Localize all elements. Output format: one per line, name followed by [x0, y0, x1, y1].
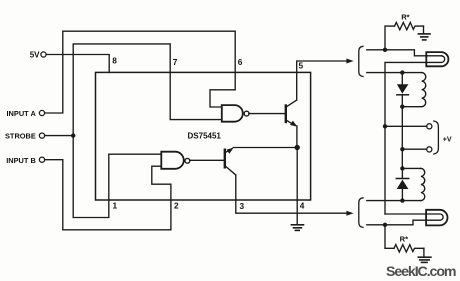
- terminal +V lower: [427, 147, 432, 152]
- resistor R2: [394, 245, 424, 252]
- wire pin 1 to gate U1a upper input: [109, 154, 162, 200]
- wire strobe to pin 1: [73, 136, 109, 218]
- wire INPUT A to pin 6: [45, 31, 236, 113]
- wire R2 down: [385, 225, 394, 249]
- junction R2: [383, 223, 387, 227]
- connector brace top: [359, 46, 363, 76]
- junction coil rail top 2: [400, 166, 404, 170]
- wire U1a output to Q1 base: [190, 159, 224, 161]
- wire pin 4 to ground: [296, 148, 298, 224]
- ground pin 4: [291, 225, 303, 231]
- transistor Q1: [225, 148, 236, 175]
- terminal INPUT B: [39, 157, 44, 162]
- wire R2 to ground: [423, 248, 425, 256]
- junction D2 bottom: [400, 198, 404, 202]
- NAND gate U1b: [222, 105, 243, 122]
- connector brace bottom: [359, 198, 363, 228]
- junction R1: [383, 48, 387, 52]
- wire Q1 collector pin 3 to arrow: [236, 175, 347, 213]
- svg-text:DS75451: DS75451: [188, 131, 222, 140]
- ground R2: [418, 257, 431, 262]
- junction +V lower: [400, 147, 404, 151]
- junction D1 bottom: [400, 105, 404, 109]
- wire +V lower: [402, 148, 426, 150]
- terminal STROBE: [39, 133, 44, 138]
- svg-text:4: 4: [300, 200, 305, 210]
- junction diode D1 top: [400, 70, 404, 74]
- wire R1 to ground: [423, 26, 425, 33]
- wire INPUT B to pin 2: [45, 160, 171, 230]
- wire bus D1 to +V lower: [401, 107, 403, 169]
- wire STROBE to junction: [45, 135, 73, 137]
- wire lamp 1 feed: [367, 50, 442, 56]
- svg-text:3: 3: [240, 201, 245, 211]
- bubble U1a: [185, 158, 190, 163]
- wire 5V to pin 8: [46, 55, 109, 73]
- svg-text:INPUT B: INPUT B: [6, 156, 36, 165]
- wire pin 6 hook to gate U1b upper input: [210, 72, 235, 107]
- svg-text:2: 2: [174, 200, 179, 210]
- wire emitter rail: [233, 147, 297, 149]
- wire coil rail bottom 1: [402, 106, 421, 108]
- junction +V upper: [383, 124, 387, 128]
- wire lamp 2 feed: [367, 214, 443, 225]
- lamp LP1 filament: [385, 56, 445, 127]
- wire U1b output to Q2 base: [249, 113, 285, 115]
- diode D1: [397, 73, 409, 107]
- NAND gate U1a: [161, 152, 183, 169]
- lamp LP1: [426, 52, 448, 66]
- resistor R1: [395, 22, 424, 29]
- wire +V upper: [385, 125, 427, 127]
- relay coil K2: [421, 168, 425, 200]
- wire coil rail top 1: [367, 72, 422, 74]
- svg-text:6: 6: [238, 57, 243, 67]
- svg-text:8: 8: [112, 56, 117, 66]
- IC box DS75451: [96, 72, 311, 200]
- wire pin 7 to gate U1b lower input: [170, 72, 222, 119]
- wire coil rail bottom 2: [367, 200, 421, 202]
- svg-text:5: 5: [299, 61, 304, 71]
- terminal +V upper: [427, 124, 432, 129]
- wire Q2 emitter to node: [296, 126, 298, 148]
- svg-text:SeekIC.com: SeekIC.com: [386, 264, 457, 280]
- arrowhead pin3: [346, 211, 353, 216]
- svg-text:1: 1: [113, 200, 118, 210]
- terminal INPUT A: [39, 110, 44, 115]
- wire strobe to pin 7: [73, 44, 170, 136]
- svg-text:R*: R*: [400, 234, 408, 243]
- svg-text:+V: +V: [443, 136, 452, 143]
- transistor Q2: [286, 100, 298, 127]
- wire R1 up: [385, 26, 395, 50]
- ground R1: [418, 34, 430, 40]
- wire coil rail top 2: [402, 167, 421, 169]
- svg-text:7: 7: [173, 57, 178, 67]
- wire bus lamp2 return: [384, 126, 386, 214]
- relay coil K1: [422, 73, 426, 107]
- terminal 5V: [41, 52, 46, 57]
- svg-text:R*: R*: [401, 12, 409, 21]
- arrowhead pin5: [346, 59, 353, 64]
- wire Q2 collector to pin 5 and arrow line: [297, 61, 348, 100]
- diode D2: [396, 168, 408, 200]
- junction strobe: [71, 133, 75, 137]
- svg-text:5V: 5V: [30, 50, 40, 59]
- svg-text:STROBE: STROBE: [5, 132, 36, 141]
- node emitters: [295, 145, 300, 150]
- lamp LP2: [426, 210, 447, 226]
- wire pin 2 hook to gate U1a lower input: [152, 166, 171, 200]
- bubble U1b: [244, 111, 249, 116]
- brace +V: [434, 121, 439, 154]
- svg-text:INPUT A: INPUT A: [7, 109, 37, 118]
